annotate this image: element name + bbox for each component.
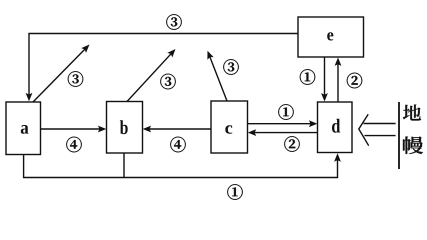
text man (mantle) [403, 137, 423, 154]
arrow a to b [41, 128, 104, 130]
box e [298, 17, 364, 57]
label 3 on c diagonal [223, 59, 238, 74]
arrow e to d [324, 57, 326, 98]
text di (earth) [403, 105, 421, 121]
label 1 bottom rail [227, 184, 242, 199]
arrowhead into a top [26, 93, 33, 101]
arrow d to c [251, 132, 318, 134]
arrow c to b [146, 128, 211, 130]
label 2 d to c [284, 136, 299, 151]
label 1 e to d [300, 69, 315, 84]
arrow a diagonal up-right [33, 47, 88, 103]
mantle divider bar [398, 102, 400, 169]
label 1 c to d [278, 104, 293, 119]
box b [107, 102, 143, 154]
label 4 left [66, 137, 81, 152]
wire bottom rail a to d [24, 155, 338, 178]
box c [211, 101, 248, 153]
wire top rail e to a [29, 34, 298, 99]
mantle double arrow shaft top [364, 123, 396, 125]
box d [318, 102, 353, 153]
label 2 d to e [347, 73, 362, 88]
mantle double arrow shaft bottom [365, 135, 396, 137]
mantle double arrow chevron [359, 114, 369, 145]
arrow d to e [337, 61, 339, 102]
label 3 on top rail [166, 14, 181, 29]
wire b bottom stub [123, 153, 125, 178]
arrow c diagonal up-left [209, 54, 227, 101]
box a [6, 102, 41, 155]
label 3 on a diagonal [68, 71, 83, 86]
arrowhead into d bottom [334, 153, 341, 161]
label 3 on b diagonal [160, 74, 175, 89]
arrow c to d [248, 123, 315, 125]
label 4 right [170, 137, 185, 152]
arrow b diagonal up-right [127, 52, 173, 102]
